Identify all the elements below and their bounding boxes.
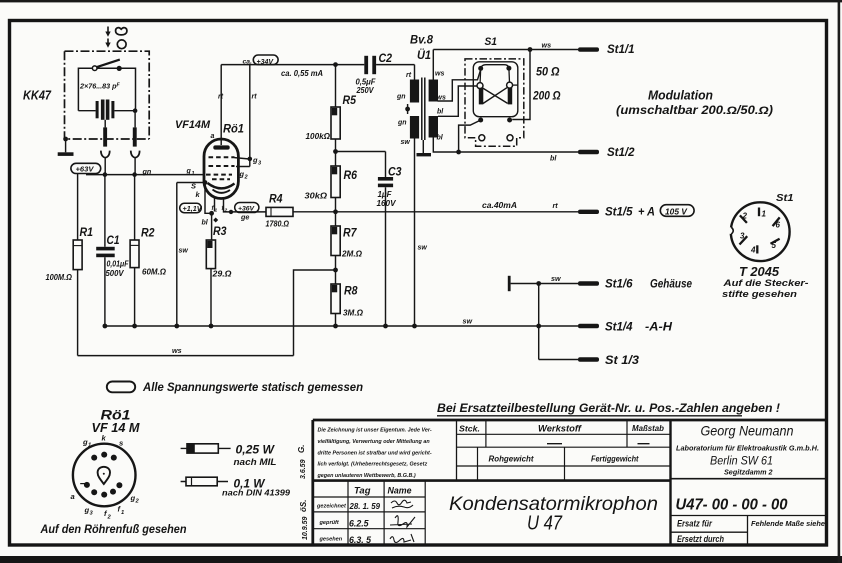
wire +34V line: [221, 64, 414, 66]
svg-text:ca.: ca.: [243, 59, 253, 66]
svg-text:30kΩ: 30kΩ: [305, 191, 328, 201]
title block outer: [313, 420, 827, 545]
svg-text:250V: 250V: [356, 86, 375, 95]
svg-text:3: 3: [740, 232, 745, 241]
svg-text:Tag: Tag: [354, 486, 371, 496]
svg-text:1: 1: [762, 210, 767, 219]
scan edge right: [838, 0, 841, 563]
legend resistor 0,25W: [181, 447, 231, 449]
svg-text:rt: rt: [252, 94, 258, 101]
signature table: [312, 497, 426, 529]
svg-text:Auf die Stecker-: Auf die Stecker-: [722, 278, 808, 289]
switch contact bottom right (open): [507, 135, 513, 141]
terminal St1/5: [578, 210, 599, 214]
svg-text:Fertiggewicht: Fertiggewicht: [591, 454, 639, 464]
node St1/1 switch tap: [528, 47, 533, 52]
svg-text:Bei Ersatzteilbestellung Ger: Bei Ersatzteilbestellung Gerät-Nr. u. Po…: [437, 401, 780, 415]
svg-text:stifte gesehen: stifte gesehen: [722, 289, 797, 300]
svg-text:T 2045: T 2045: [739, 265, 780, 279]
primary centre tap: [407, 104, 409, 114]
node at capsule right: [133, 108, 138, 113]
svg-text:R3: R3: [213, 224, 227, 238]
note oval: [107, 382, 135, 393]
svg-text:29.Ω: 29.Ω: [211, 269, 231, 279]
capacitor C2: [364, 56, 368, 74]
wire St1/6 to St1/3 vertical: [538, 284, 540, 360]
svg-text:(umschaltbar 200.Ω/50.Ω): (umschaltbar 200.Ω/50.Ω): [616, 105, 773, 117]
grid g1 dashes: [206, 174, 232, 176]
svg-text:Ü1: Ü1: [417, 47, 431, 62]
svg-text:sw: sw: [418, 245, 428, 252]
switch contact bottom left (open): [479, 135, 485, 141]
svg-text:Fehlende Maße siehe: Fehlende Maße siehe: [751, 519, 825, 528]
pin 1: [758, 208, 760, 217]
resistor R2: [134, 175, 136, 240]
bus nodes: [103, 324, 108, 329]
wire R5-R6: [335, 139, 337, 166]
svg-text:1μF: 1μF: [378, 190, 393, 199]
svg-text:4: 4: [750, 246, 756, 255]
svg-text:+ A: + A: [638, 207, 655, 219]
node f2: [229, 210, 233, 214]
svg-text:1: 1: [121, 510, 124, 516]
svg-text:ws: ws: [437, 95, 446, 102]
resistor R3: [211, 213, 213, 240]
svg-text:nach DIN 41399: nach DIN 41399: [222, 488, 290, 498]
socket cup left: [101, 151, 110, 158]
switch inner frame: [473, 62, 518, 117]
svg-text:ws: ws: [542, 41, 552, 50]
wire cup left down to gn node: [104, 158, 106, 175]
svg-text:500V: 500V: [106, 269, 125, 278]
thick vertical centre/right: [669, 420, 671, 545]
socket circle: [73, 444, 136, 507]
pin 6: [773, 217, 780, 226]
svg-text:Die Zeichnung ist unser Eigent: Die Zeichnung ist unser Eigentum. Jede V…: [318, 428, 432, 434]
switch cross wires: [483, 88, 508, 104]
svg-text:R5: R5: [343, 93, 357, 107]
resistor R5: [335, 65, 337, 107]
wire bus -A-H: [105, 325, 578, 327]
svg-text:U 47: U 47: [527, 512, 563, 535]
heater stub f2: [224, 198, 232, 212]
svg-text:Werkstoff: Werkstoff: [538, 424, 582, 434]
switch contact low right: [507, 118, 512, 123]
wire to C3: [336, 151, 386, 153]
svg-text:ge: ge: [240, 213, 249, 222]
oval +1.1V: [180, 203, 202, 212]
svg-text:Ersatz für: Ersatz für: [677, 519, 712, 529]
node R5 top: [333, 62, 338, 67]
svg-text:Gehäuse: Gehäuse: [650, 279, 693, 291]
svg-text:S1: S1: [485, 36, 498, 48]
switch contact mid left (open): [477, 83, 483, 89]
terminal St1/4: [578, 324, 599, 328]
wire St1/6: [511, 283, 578, 285]
wire secondary bl lower to St1/2: [433, 138, 578, 153]
svg-text:1: 1: [215, 207, 218, 213]
svg-text:R7: R7: [343, 226, 358, 240]
svg-text:+1,1V: +1,1V: [183, 204, 203, 213]
rotated margin notes: [297, 445, 307, 479]
svg-text:C1: C1: [107, 233, 120, 247]
thick divider under upper table: [312, 479, 671, 482]
anode wire up: [220, 65, 222, 145]
capsule housing (dash-dot box): [65, 51, 150, 139]
primary winding lower: [410, 116, 419, 139]
svg-text:öS.: öS.: [299, 500, 308, 512]
svg-text:nach MIL: nach MIL: [234, 457, 277, 468]
svg-text:Auf den Röhrenfuß gesehen: Auf den Röhrenfuß gesehen: [40, 524, 187, 536]
node S on envelope: [203, 180, 208, 185]
svg-text:6: 6: [776, 221, 781, 230]
switch contact low left: [478, 118, 483, 123]
omni pattern symbol: [117, 40, 126, 49]
lower right cells: [671, 515, 828, 517]
svg-text:50 Ω: 50 Ω: [536, 65, 560, 79]
node C3 tap: [333, 149, 338, 154]
cathode wire down: [205, 183, 212, 214]
grid stub dashes: [212, 178, 230, 180]
svg-text:200 Ω: 200 Ω: [532, 89, 561, 103]
wire R6 bottom: [335, 198, 337, 212]
terminal St1/2: [578, 150, 599, 154]
secondary winding lower: [429, 116, 438, 138]
terminal St1/1: [578, 47, 599, 51]
svg-text:R4: R4: [269, 192, 283, 206]
capsule output pin left: [104, 120, 106, 128]
wire feedback to ws: [294, 270, 336, 356]
wire right plate to node: [114, 110, 135, 112]
tube envelope: [204, 139, 238, 199]
resistor R7: [335, 212, 337, 226]
svg-text:Ersetzt durch: Ersetzt durch: [677, 534, 724, 544]
capacitor C3: [385, 152, 387, 178]
svg-text:gn: gn: [396, 94, 406, 101]
socket key (teardrop): [98, 467, 110, 484]
pin 3: [740, 236, 748, 244]
svg-text:rt: rt: [218, 94, 224, 101]
resistor R8: [331, 284, 340, 314]
svg-text:C2: C2: [379, 51, 393, 65]
svg-text:1: 1: [192, 171, 195, 177]
svg-text:28. 1. 59: 28. 1. 59: [349, 501, 381, 511]
primary winding upper: [410, 80, 419, 103]
scan edge top: [0, 0, 842, 2]
signatures: [391, 500, 413, 508]
svg-text:Stck.: Stck.: [459, 424, 480, 434]
svg-text:sw: sw: [179, 248, 189, 255]
core ground: [417, 153, 432, 156]
svg-text:+34V: +34V: [257, 59, 275, 66]
node on bus: [536, 324, 541, 329]
svg-text:rt: rt: [406, 72, 412, 79]
pin 4: [756, 245, 758, 253]
current arrow diamond: [213, 218, 218, 223]
terminal St1/3: [578, 357, 599, 361]
capsule capacitor plates: [96, 101, 99, 118]
wire rt right (g3 to +34V line): [249, 65, 251, 159]
oval +63V: [71, 163, 101, 173]
svg-text:St1/5: St1/5: [605, 207, 633, 219]
svg-text:sw: sw: [463, 317, 473, 326]
svg-text:dritte Personen ist strafbar u: dritte Personen ist strafbar und wird ge…: [318, 450, 432, 456]
wire secondary ws lower to switch: [438, 71, 481, 101]
svg-text:gesehen: gesehen: [319, 537, 343, 543]
wire R7-R8: [335, 256, 337, 285]
core ground wire: [422, 140, 424, 153]
svg-text:6.3. 5: 6.3. 5: [349, 535, 371, 545]
svg-text:2: 2: [742, 211, 748, 220]
wire sw column down: [176, 183, 178, 327]
switch wiper stubs: [480, 68, 509, 83]
svg-text:0,01μF: 0,01μF: [107, 260, 130, 269]
svg-text:3.6.59: 3.6.59: [300, 459, 307, 479]
svg-text:St1: St1: [776, 192, 794, 204]
copyright box right edge: [456, 420, 458, 481]
wire secondary top to St1/1 line: [432, 50, 434, 80]
svg-text:gezeichnet: gezeichnet: [316, 504, 347, 510]
svg-text:Berlin SW 61: Berlin SW 61: [710, 454, 773, 468]
svg-text:gegen unlauteren Wettbewerb, B: gegen unlauteren Wettbewerb, B.G.B.): [317, 473, 416, 479]
legend resistor 0,1W: [181, 481, 228, 483]
svg-text:2M.Ω: 2M.Ω: [341, 249, 362, 259]
wire cup right down to node: [134, 158, 136, 175]
capsule ground wire: [65, 139, 67, 152]
svg-text:5: 5: [772, 241, 777, 250]
switch housing dash-dot: [465, 59, 524, 146]
switch bar right: [508, 88, 513, 105]
wire St1/3: [539, 359, 578, 361]
svg-text:s: s: [119, 439, 123, 448]
svg-text:lich verfolgt. (Urheberrechts: lich verfolgt. (Urheberrechtsgesetz, Ges…: [318, 462, 428, 468]
svg-text:ca. 0,55 mA: ca. 0,55 mA: [281, 69, 323, 78]
svg-text:+63V: +63V: [76, 165, 95, 174]
node R7/R8 junction: [333, 268, 338, 273]
node g3: [248, 157, 253, 162]
pin 2: [740, 215, 747, 223]
switch contact top left: [478, 66, 483, 71]
resistor R4: [266, 207, 293, 216]
svg-text:St1/6: St1/6: [605, 279, 633, 291]
oval +34V: [253, 55, 278, 65]
svg-text:bl: bl: [550, 154, 557, 163]
secondary winding upper: [429, 80, 438, 102]
svg-text:U47- 00 - 00 - 00: U47- 00 - 00 - 00: [676, 497, 788, 514]
resistor R1: [73, 240, 82, 270]
svg-text:bl: bl: [437, 109, 444, 116]
svg-text:ca.40mA: ca.40mA: [482, 201, 517, 210]
heater stub f1: [214, 197, 216, 212]
svg-text:ws: ws: [172, 346, 182, 355]
svg-text:Laboratorium für Elektroakusti: Laboratorium für Elektroakustik G.m.b.H.: [676, 444, 819, 453]
switch contact mid right (open): [507, 82, 513, 88]
svg-text:0,25 W: 0,25 W: [236, 443, 276, 457]
svg-text:1780.Ω: 1780.Ω: [266, 219, 290, 229]
svg-text:2×76...83 p: 2×76...83 p: [79, 82, 117, 91]
svg-text:St1/2: St1/2: [607, 147, 635, 159]
svg-text:100kΩ: 100kΩ: [306, 131, 331, 141]
svg-text:St1/4: St1/4: [605, 322, 633, 334]
svg-text:ws: ws: [435, 71, 444, 78]
wire R1 bottom to ws line: [77, 270, 79, 356]
capsule direction arrows: [107, 27, 109, 45]
grid g3 dashes: [209, 156, 235, 158]
grid g2 dashes: [209, 165, 235, 167]
svg-text:Rohgewicht: Rohgewicht: [489, 454, 535, 464]
cathode arcs: [208, 183, 235, 188]
terminal St1/6: [578, 281, 599, 285]
node C1 column: [103, 172, 108, 177]
wire primary bottom down to bus: [414, 139, 416, 327]
node R2 column: [132, 172, 137, 177]
svg-text:VF 14 M: VF 14 M: [92, 420, 141, 435]
wire plate line to St1/5: [293, 211, 578, 213]
svg-text:2: 2: [224, 208, 228, 214]
switch top bridge trace: [481, 65, 509, 69]
switch contact top right: [506, 66, 511, 71]
scan edge bottom: [0, 556, 842, 563]
g3 exit wire: [235, 158, 249, 159]
svg-text:Segitzdamm 2: Segitzdamm 2: [724, 468, 773, 477]
svg-text:1: 1: [88, 443, 91, 449]
svg-text:R2: R2: [141, 226, 155, 240]
svg-text:St 1/3: St 1/3: [605, 355, 640, 367]
svg-text:Name: Name: [388, 486, 412, 496]
svg-text:geprüft: geprüft: [319, 520, 340, 526]
wire bl node up to low-left contact: [459, 121, 479, 152]
svg-text:3M.Ω: 3M.Ω: [343, 308, 363, 318]
node bl: [456, 150, 461, 155]
wire f2 to R4: [231, 211, 266, 213]
svg-text:60M.Ω: 60M.Ω: [142, 267, 166, 277]
node f1/k: [209, 211, 214, 216]
svg-text:Rö1: Rö1: [223, 124, 244, 136]
chassis stub: [508, 276, 511, 291]
capsule inner box: [78, 68, 135, 111]
svg-text:St1/1: St1/1: [607, 44, 635, 56]
capsule output pin right: [134, 113, 136, 128]
svg-text:gn: gn: [142, 167, 152, 176]
oval 105V: [660, 205, 694, 217]
g2 exit wire: [236, 159, 250, 167]
wire R1 top: [77, 173, 79, 241]
svg-text:gn: gn: [397, 120, 407, 127]
wire S to sw column: [177, 182, 205, 184]
wire C2 line down to primary: [414, 65, 416, 80]
svg-text:sw: sw: [551, 274, 561, 283]
node capsule housing bottom left: [63, 137, 68, 142]
svg-text:Georg Neumann: Georg Neumann: [701, 423, 794, 439]
svg-text:105 V: 105 V: [665, 206, 688, 216]
socket pins: [91, 455, 97, 461]
wire ws feedback bottom: [78, 355, 294, 357]
capacitor C1: [104, 175, 106, 247]
svg-text:R1: R1: [80, 225, 94, 239]
ground: [58, 152, 74, 156]
wire secondary bl upper to switch: [438, 86, 477, 116]
svg-text:Maßstab: Maßstab: [632, 423, 664, 433]
connector notch: [727, 227, 734, 234]
switch bar left: [479, 88, 484, 105]
svg-text:-A-H: -A-H: [645, 322, 673, 334]
cardioid pattern symbol: [116, 28, 127, 35]
anode plate: [213, 145, 229, 149]
socket cup right: [131, 151, 140, 158]
svg-text:Alle Spannungswerte statisch: Alle Spannungswerte statisch gemessen: [142, 382, 363, 394]
node main line R5 column: [333, 209, 338, 214]
svg-text:a: a: [211, 133, 215, 140]
svg-text:Modulation: Modulation: [648, 88, 713, 103]
svg-text:10.9.59: 10.9.59: [302, 517, 309, 540]
node St1/6: [536, 281, 541, 286]
svg-text:R8: R8: [344, 284, 358, 298]
connector circle: [731, 202, 790, 261]
svg-text:sw: sw: [401, 139, 411, 146]
pin a tick: [80, 483, 86, 485]
svg-text:a: a: [71, 492, 75, 501]
oval +36V: [235, 203, 259, 213]
upper table lines: [457, 434, 671, 466]
svg-text:KK47: KK47: [23, 89, 52, 103]
svg-text:100M.Ω: 100M.Ω: [46, 272, 73, 282]
svg-text:C3: C3: [388, 165, 402, 179]
svg-text:160V: 160V: [377, 199, 397, 208]
wire gn bus: [86, 174, 205, 176]
svg-text:bl: bl: [437, 135, 444, 142]
svg-text:vielfältigung, Verwertung oder: vielfältigung, Verwertung oder Mitteilun…: [318, 439, 431, 445]
svg-text:Bv.8: Bv.8: [410, 33, 433, 47]
wire inner box to left plate: [78, 110, 95, 112]
wire St1/1 line: [433, 49, 578, 51]
svg-text:VF14M: VF14M: [175, 119, 211, 131]
pin 5: [771, 239, 780, 244]
svg-text:bl: bl: [202, 220, 209, 227]
svg-text:R6: R6: [344, 168, 358, 182]
resistor R6: [331, 166, 340, 198]
right circle stub: [513, 84, 518, 86]
svg-text:rt: rt: [553, 201, 559, 210]
svg-text:G.: G.: [297, 445, 306, 453]
wire R8 bottom: [335, 314, 337, 327]
wire St1/1 node down to low-right contact: [512, 50, 530, 120]
svg-text:6.2.5: 6.2.5: [349, 519, 369, 529]
transformer core: [422, 78, 425, 141]
pattern switch: [92, 66, 97, 71]
